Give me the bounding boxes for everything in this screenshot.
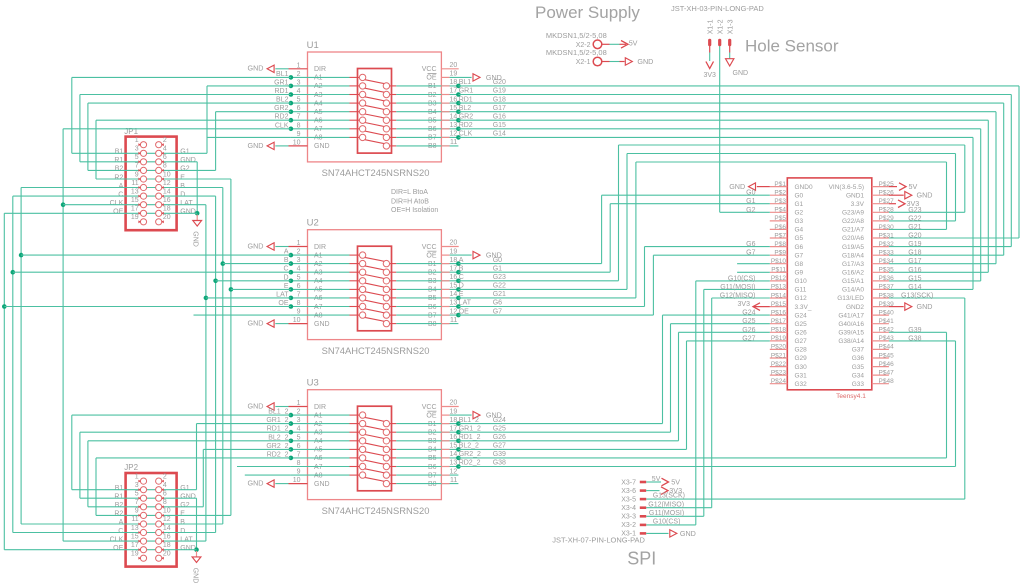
svg-text:16: 16	[450, 274, 458, 281]
svg-text:C: C	[118, 528, 123, 535]
svg-text:G16: G16	[493, 113, 506, 120]
svg-text:B3: B3	[428, 438, 437, 445]
svg-text:B6: B6	[428, 304, 437, 311]
svg-text:A7: A7	[314, 304, 323, 311]
svg-text:G36: G36	[852, 355, 865, 362]
svg-text:G21: G21	[493, 291, 506, 298]
svg-text:G12(MISO): G12(MISO)	[720, 293, 756, 300]
svg-text:B7: B7	[428, 472, 437, 479]
svg-text:X3-3: X3-3	[621, 514, 636, 521]
svg-text:A3: A3	[314, 430, 323, 437]
svg-text:G10(CS): G10(CS)	[653, 519, 681, 526]
svg-text:G28: G28	[795, 347, 808, 354]
svg-text:LAT: LAT	[459, 300, 472, 307]
svg-text:B7: B7	[428, 135, 437, 142]
svg-text:GND: GND	[314, 481, 330, 488]
svg-text:GND: GND	[917, 302, 933, 311]
svg-text:SN74AHCT245NSRNS20: SN74AHCT245NSRNS20	[322, 345, 430, 356]
svg-text:5: 5	[135, 154, 139, 161]
svg-text:G21: G21	[908, 224, 921, 231]
svg-text:GR2_2: GR2_2	[459, 451, 481, 458]
svg-text:13: 13	[131, 525, 139, 532]
svg-text:G7: G7	[795, 252, 804, 259]
svg-text:A: A	[459, 257, 464, 264]
svg-text:11: 11	[450, 477, 457, 484]
svg-text:G18: G18	[493, 96, 506, 103]
svg-text:Teensy4.1: Teensy4.1	[836, 393, 866, 400]
svg-text:10: 10	[163, 171, 171, 178]
svg-text:SN74AHCT245NSRNS20: SN74AHCT245NSRNS20	[322, 167, 430, 178]
svg-text:LAT: LAT	[180, 200, 193, 207]
svg-text:G9: G9	[795, 270, 804, 277]
svg-text:B5: B5	[428, 118, 437, 125]
svg-text:B4: B4	[428, 287, 437, 294]
svg-text:B5: B5	[428, 295, 437, 302]
svg-text:P$23: P$23	[771, 369, 787, 376]
svg-text:16: 16	[163, 533, 171, 540]
svg-text:RD2_2: RD2_2	[459, 460, 481, 467]
svg-text:G10(CS): G10(CS)	[728, 275, 756, 282]
svg-text:P$4: P$4	[774, 207, 786, 214]
svg-text:OE: OE	[113, 545, 123, 552]
svg-text:GND: GND	[180, 157, 196, 164]
svg-text:P$14: P$14	[771, 292, 787, 299]
svg-text:G23: G23	[908, 207, 921, 214]
svg-text:SN74AHCT245NSRNS20: SN74AHCT245NSRNS20	[322, 505, 430, 516]
svg-text:G14: G14	[908, 284, 921, 291]
svg-text:P$48: P$48	[879, 378, 895, 385]
svg-text:B3: B3	[428, 278, 437, 285]
svg-text:P$40: P$40	[879, 309, 895, 316]
svg-text:OE: OE	[426, 412, 436, 419]
svg-text:G20: G20	[908, 233, 921, 240]
svg-text:G0: G0	[746, 190, 755, 197]
svg-text:G22: G22	[908, 215, 921, 222]
svg-text:G1: G1	[180, 485, 189, 492]
svg-text:R1: R1	[114, 494, 123, 501]
svg-text:4: 4	[163, 146, 167, 153]
svg-text:18: 18	[163, 542, 171, 549]
svg-text:19: 19	[131, 214, 139, 221]
svg-text:16: 16	[450, 96, 458, 103]
svg-text:P$6: P$6	[774, 224, 786, 231]
svg-text:14: 14	[450, 113, 458, 120]
svg-text:G15: G15	[908, 275, 921, 282]
svg-text:13: 13	[450, 122, 458, 129]
svg-text:G25: G25	[742, 318, 755, 325]
svg-text:A1: A1	[314, 75, 323, 82]
svg-text:9: 9	[135, 171, 139, 178]
svg-text:G27: G27	[795, 338, 808, 345]
svg-text:GND: GND	[248, 479, 264, 488]
svg-text:Hole Sensor: Hole Sensor	[745, 36, 839, 55]
svg-text:G19: G19	[908, 241, 921, 248]
svg-text:11: 11	[450, 139, 457, 146]
svg-text:5V: 5V	[629, 38, 638, 47]
svg-text:G11: G11	[795, 287, 807, 294]
svg-text:12: 12	[163, 516, 171, 523]
svg-text:GND2: GND2	[846, 304, 864, 311]
svg-text:G17: G17	[493, 105, 506, 112]
svg-text:G15: G15	[493, 122, 506, 129]
svg-text:14: 14	[450, 451, 458, 458]
svg-text:X3-6: X3-6	[621, 488, 636, 495]
svg-text:B1: B1	[115, 149, 124, 156]
svg-text:A: A	[119, 183, 124, 190]
svg-text:GND: GND	[180, 545, 196, 552]
svg-text:X3-7: X3-7	[621, 479, 636, 486]
svg-text:P$2: P$2	[774, 190, 786, 197]
svg-text:CLK: CLK	[110, 536, 124, 543]
svg-text:CLK: CLK	[110, 200, 124, 207]
svg-text:GND: GND	[314, 321, 330, 328]
svg-text:9: 9	[135, 508, 139, 515]
svg-text:3V3: 3V3	[738, 301, 751, 308]
svg-text:G20/A6: G20/A6	[842, 235, 864, 242]
svg-text:G11(MOSI): G11(MOSI)	[720, 284, 755, 291]
svg-text:A8: A8	[314, 472, 323, 479]
svg-text:A6: A6	[314, 295, 323, 302]
svg-text:B5: B5	[428, 455, 437, 462]
svg-text:G33: G33	[852, 381, 865, 388]
svg-text:G24: G24	[742, 310, 755, 317]
svg-text:8: 8	[163, 499, 167, 506]
svg-text:G22: G22	[493, 283, 506, 290]
svg-text:B2: B2	[115, 166, 124, 173]
svg-text:A7: A7	[314, 464, 323, 471]
svg-text:A8: A8	[314, 135, 323, 142]
svg-text:E: E	[180, 174, 185, 181]
svg-text:G0: G0	[795, 192, 804, 199]
svg-text:GND: GND	[180, 209, 196, 216]
svg-text:B2: B2	[428, 270, 437, 277]
svg-text:GND1: GND1	[846, 192, 864, 199]
svg-text:G18/A4: G18/A4	[842, 252, 864, 259]
svg-text:P$22: P$22	[771, 361, 787, 368]
svg-text:19: 19	[450, 248, 458, 255]
svg-text:G6: G6	[746, 241, 755, 248]
svg-text:JP2: JP2	[124, 463, 138, 472]
svg-text:12: 12	[450, 308, 458, 315]
svg-text:18: 18	[163, 206, 171, 213]
svg-text:G16/A2: G16/A2	[842, 270, 864, 277]
svg-text:JST-XH-03-PIN-LONG-PAD: JST-XH-03-PIN-LONG-PAD	[671, 4, 764, 13]
svg-text:G16: G16	[908, 267, 921, 274]
svg-text:B1: B1	[428, 83, 437, 90]
svg-text:DIR=H AtoB: DIR=H AtoB	[391, 198, 429, 205]
svg-text:14: 14	[163, 525, 171, 532]
svg-text:X3-5: X3-5	[621, 496, 636, 503]
svg-text:G18: G18	[908, 250, 921, 257]
svg-text:B3: B3	[428, 100, 437, 107]
svg-text:G14/A0: G14/A0	[842, 287, 864, 294]
svg-text:BL2: BL2	[459, 105, 472, 112]
svg-text:5: 5	[135, 491, 139, 498]
svg-text:C: C	[118, 191, 123, 198]
svg-text:G1: G1	[180, 149, 189, 156]
svg-text:RD1: RD1	[459, 96, 473, 103]
svg-text:B: B	[180, 183, 185, 190]
svg-text:X2-1: X2-1	[576, 59, 591, 66]
svg-text:MKDSN1,5/2-5,08: MKDSN1,5/2-5,08	[546, 31, 607, 40]
svg-text:B8: B8	[428, 321, 437, 328]
svg-text:DIR: DIR	[314, 404, 326, 411]
svg-text:17: 17	[450, 265, 458, 272]
svg-text:G3: G3	[795, 218, 804, 225]
svg-text:17: 17	[450, 425, 458, 432]
svg-text:P$18: P$18	[771, 327, 787, 334]
svg-text:18: 18	[450, 417, 458, 424]
svg-text:U2: U2	[307, 218, 319, 229]
svg-text:G23: G23	[493, 274, 506, 281]
svg-text:G17/A3: G17/A3	[842, 261, 864, 268]
svg-text:Power Supply: Power Supply	[535, 3, 640, 22]
svg-text:A4: A4	[314, 278, 323, 285]
svg-text:G35: G35	[852, 364, 865, 371]
svg-text:3.3V: 3.3V	[851, 201, 865, 208]
svg-text:12: 12	[163, 180, 171, 187]
svg-text:G26: G26	[742, 327, 755, 334]
svg-text:G39: G39	[908, 327, 921, 334]
svg-text:U1: U1	[307, 40, 319, 51]
svg-text:20: 20	[163, 214, 171, 221]
svg-text:D: D	[459, 283, 464, 290]
svg-text:GND: GND	[729, 182, 745, 191]
svg-text:OE: OE	[459, 308, 469, 315]
svg-text:BL1: BL1	[459, 79, 472, 86]
svg-text:13: 13	[131, 188, 139, 195]
svg-text:A4: A4	[314, 438, 323, 445]
svg-text:G23/A9: G23/A9	[842, 210, 864, 217]
svg-text:GND0: GND0	[795, 184, 813, 191]
svg-text:RD1_2: RD1_2	[459, 434, 481, 441]
svg-text:G39/A15: G39/A15	[838, 330, 864, 337]
svg-text:19: 19	[131, 551, 139, 558]
svg-text:A7: A7	[314, 126, 323, 133]
svg-text:A1: A1	[314, 412, 323, 419]
svg-text:13: 13	[450, 300, 458, 307]
svg-text:16: 16	[163, 197, 171, 204]
svg-text:G38: G38	[493, 460, 506, 467]
svg-text:B8: B8	[428, 143, 437, 150]
svg-text:OE: OE	[113, 209, 123, 216]
svg-text:G27: G27	[493, 443, 506, 450]
svg-text:G14: G14	[493, 131, 506, 138]
svg-text:DIR: DIR	[314, 66, 326, 73]
svg-text:G2: G2	[180, 502, 189, 509]
svg-text:A4: A4	[314, 100, 323, 107]
svg-text:P$41: P$41	[879, 318, 895, 325]
svg-text:G7: G7	[493, 308, 502, 315]
svg-text:20: 20	[450, 240, 458, 247]
svg-text:G25: G25	[493, 425, 506, 432]
svg-text:A6: A6	[314, 455, 323, 462]
svg-text:JP1: JP1	[124, 127, 138, 136]
svg-text:U3: U3	[307, 378, 319, 389]
svg-text:G7: G7	[746, 250, 755, 257]
svg-text:A: A	[119, 519, 124, 526]
svg-text:G38/A14: G38/A14	[838, 338, 864, 345]
svg-text:G17: G17	[908, 258, 921, 265]
svg-text:OE: OE	[426, 252, 436, 259]
svg-text:G12: G12	[795, 295, 808, 302]
svg-text:G19: G19	[493, 88, 506, 95]
svg-text:A2: A2	[314, 83, 323, 90]
svg-text:G10: G10	[795, 278, 808, 285]
svg-text:GND: GND	[192, 568, 199, 584]
svg-text:11: 11	[131, 516, 138, 523]
svg-text:6: 6	[163, 491, 167, 498]
svg-text:1: 1	[135, 137, 139, 144]
svg-text:D: D	[180, 528, 185, 535]
svg-text:E: E	[459, 291, 464, 298]
svg-text:DIR=L BtoA: DIR=L BtoA	[391, 189, 428, 196]
svg-text:15: 15	[450, 105, 458, 112]
svg-text:X1-2: X1-2	[717, 19, 724, 34]
svg-text:17: 17	[131, 542, 139, 549]
svg-text:P$46: P$46	[879, 361, 895, 368]
svg-text:G6: G6	[795, 244, 804, 251]
svg-text:B1: B1	[428, 261, 437, 268]
svg-text:P$5: P$5	[774, 215, 786, 222]
svg-text:15: 15	[131, 533, 139, 540]
svg-text:GR1: GR1	[459, 88, 474, 95]
svg-text:3: 3	[135, 482, 139, 489]
svg-text:A5: A5	[314, 447, 323, 454]
svg-text:G26: G26	[493, 434, 506, 441]
svg-text:G37: G37	[852, 347, 865, 354]
svg-text:20: 20	[450, 62, 458, 69]
svg-text:GND: GND	[248, 64, 264, 73]
svg-text:G38: G38	[908, 335, 921, 342]
svg-text:20: 20	[450, 400, 458, 407]
svg-text:GND: GND	[314, 143, 330, 150]
svg-text:6: 6	[163, 154, 167, 161]
svg-text:14: 14	[450, 291, 458, 298]
svg-text:SPI: SPI	[627, 549, 656, 569]
svg-text:G6: G6	[493, 300, 502, 307]
svg-text:D: D	[180, 191, 185, 198]
svg-text:GND: GND	[248, 141, 264, 150]
svg-text:BL2_2: BL2_2	[459, 443, 479, 450]
svg-text:GR1_2: GR1_2	[459, 425, 481, 432]
svg-text:G24: G24	[795, 312, 808, 319]
svg-text:A6: A6	[314, 118, 323, 125]
svg-text:17: 17	[450, 88, 458, 95]
svg-text:G13/LED: G13/LED	[837, 295, 864, 302]
svg-text:P$8: P$8	[774, 241, 786, 248]
svg-text:B7: B7	[428, 312, 437, 319]
svg-text:7: 7	[135, 499, 139, 506]
svg-text:GND: GND	[191, 231, 198, 247]
svg-text:R2: R2	[114, 511, 123, 518]
svg-text:X3-4: X3-4	[621, 505, 636, 512]
svg-text:BL1_2: BL1_2	[459, 417, 479, 424]
svg-text:B2: B2	[428, 430, 437, 437]
svg-text:G11(MOSI): G11(MOSI)	[649, 510, 684, 517]
svg-text:G22/A8: G22/A8	[842, 218, 864, 225]
svg-text:G39: G39	[493, 451, 506, 458]
svg-text:3: 3	[135, 146, 139, 153]
svg-text:A1: A1	[314, 252, 323, 259]
svg-text:15: 15	[450, 283, 458, 290]
svg-text:P$15: P$15	[771, 301, 787, 308]
svg-text:P$11: P$11	[771, 267, 786, 274]
svg-text:17: 17	[131, 206, 139, 213]
svg-text:11: 11	[450, 317, 457, 324]
svg-text:OE: OE	[426, 75, 436, 82]
svg-text:3V3: 3V3	[703, 72, 716, 79]
svg-text:G1: G1	[795, 201, 804, 208]
svg-text:P$3: P$3	[774, 198, 786, 205]
svg-text:B4: B4	[428, 109, 437, 116]
svg-text:DIR: DIR	[314, 244, 326, 251]
svg-text:G15/A1: G15/A1	[842, 278, 864, 285]
svg-text:A5: A5	[314, 109, 323, 116]
svg-text:GND: GND	[248, 319, 264, 328]
svg-text:16: 16	[450, 434, 458, 441]
svg-text:2: 2	[163, 473, 167, 480]
svg-text:P$44: P$44	[879, 344, 895, 351]
svg-text:VIN(3.6-5.5): VIN(3.6-5.5)	[829, 184, 864, 191]
svg-text:A2: A2	[314, 261, 323, 268]
svg-text:G8: G8	[795, 261, 804, 268]
svg-text:P$16: P$16	[771, 309, 787, 316]
svg-text:A2: A2	[314, 421, 323, 428]
svg-text:2: 2	[163, 137, 167, 144]
svg-text:B4: B4	[428, 447, 437, 454]
svg-text:G4: G4	[795, 227, 804, 234]
svg-text:P$1: P$1	[774, 181, 786, 188]
svg-text:G26: G26	[795, 330, 808, 337]
svg-text:VCC: VCC	[422, 404, 437, 411]
svg-text:R2: R2	[114, 174, 123, 181]
svg-text:P$17: P$17	[771, 318, 787, 325]
svg-text:GND: GND	[248, 241, 264, 250]
svg-text:G31: G31	[795, 372, 808, 379]
svg-text:G20: G20	[493, 79, 506, 86]
svg-text:G40/A16: G40/A16	[838, 321, 864, 328]
svg-text:18: 18	[450, 257, 458, 264]
svg-text:B6: B6	[428, 126, 437, 133]
svg-text:B6: B6	[428, 464, 437, 471]
svg-text:G2: G2	[746, 207, 755, 214]
svg-text:GR2: GR2	[459, 113, 474, 120]
svg-text:G1: G1	[746, 198, 755, 205]
svg-text:G32: G32	[795, 381, 808, 388]
svg-text:VCC: VCC	[422, 244, 437, 251]
svg-text:G0: G0	[493, 257, 502, 264]
svg-text:P$13: P$13	[771, 284, 787, 291]
svg-text:G2: G2	[795, 210, 804, 217]
svg-text:G27: G27	[742, 335, 755, 342]
svg-text:P$24: P$24	[771, 378, 787, 385]
svg-text:12: 12	[450, 131, 458, 138]
svg-text:P$19: P$19	[771, 335, 787, 342]
svg-text:P$10: P$10	[771, 258, 787, 265]
svg-text:18: 18	[450, 79, 458, 86]
svg-text:14: 14	[163, 188, 171, 195]
svg-text:P$9: P$9	[774, 250, 786, 257]
svg-text:1: 1	[135, 473, 139, 480]
svg-text:P$45: P$45	[879, 352, 895, 359]
svg-text:LAT: LAT	[180, 536, 193, 543]
svg-text:19: 19	[450, 71, 458, 78]
svg-text:C: C	[459, 274, 464, 281]
svg-text:GND: GND	[680, 529, 696, 538]
svg-text:19: 19	[450, 408, 458, 415]
svg-text:X3-1: X3-1	[621, 531, 636, 538]
